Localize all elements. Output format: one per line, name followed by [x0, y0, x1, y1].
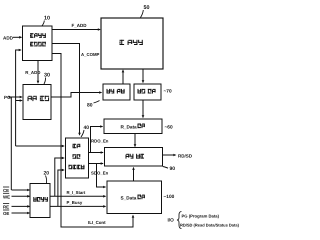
- svg-text:PG: PG: [4, 95, 11, 100]
- wire A_COMP: [52, 44, 81, 136]
- label RDO_En: [91, 139, 109, 144]
- svg-text:P_Busy: P_Busy: [67, 200, 83, 205]
- wire ADD: [13, 36, 22, 39]
- svg-text:ADD: ADD: [3, 36, 14, 41]
- label RD/SD: [178, 153, 193, 158]
- block U80 write control: [103, 84, 130, 100]
- label F_ADD: [72, 23, 88, 28]
- svg-text:F_ADD: F_ADD: [72, 23, 88, 28]
- wire to U40 in3: [58, 169, 65, 207]
- block U20 control buffer: [30, 184, 50, 218]
- wire R_ADD: [37, 61, 40, 84]
- svg-text:~100: ~100: [164, 194, 175, 200]
- wire ILI_Cont run: [52, 54, 134, 228]
- label I/O: [168, 218, 175, 223]
- wire PG: [9, 96, 23, 99]
- inputs CE WE RE OE: [3, 187, 30, 216]
- label 20: [44, 171, 50, 184]
- legend brace: [177, 212, 182, 229]
- svg-text:I/O: I/O: [168, 218, 175, 223]
- U100 text S_Data: [121, 195, 145, 201]
- svg-text:CE: CE: [3, 188, 9, 193]
- wire RD/SD out: [163, 154, 177, 157]
- wire read to R_Data latch: [142, 100, 145, 118]
- svg-text:RDO_En: RDO_En: [91, 139, 109, 144]
- U10 text line1 (address): [30, 33, 46, 38]
- svg-text:~70: ~70: [164, 89, 172, 95]
- svg-text:50: 50: [144, 5, 150, 11]
- block U40 output buffer control: [66, 138, 89, 178]
- wire rlatch to obuf: [134, 134, 137, 148]
- label 80: [87, 101, 100, 109]
- block U70 read control: [134, 84, 161, 100]
- label R_I_Start: [67, 190, 86, 195]
- svg-text:R_I_Start: R_I_Start: [67, 190, 86, 195]
- U70 text (read control): [138, 89, 156, 94]
- U40 text line2: [73, 154, 81, 158]
- wire write to cell array: [122, 69, 125, 84]
- wire slatch to obuf: [132, 167, 135, 181]
- wire to U40 in1: [16, 145, 65, 148]
- label 90: [163, 166, 175, 172]
- svg-text:OE: OE: [3, 211, 9, 216]
- wire ctrl branch up: [10, 97, 12, 190]
- svg-text:20: 20: [44, 171, 50, 177]
- svg-text:30: 30: [44, 73, 50, 79]
- svg-text:SDO_En: SDO_En: [91, 171, 109, 176]
- svg-text:S_Data: S_Data: [121, 195, 137, 200]
- input PG label: [4, 95, 11, 100]
- wire match to write: [51, 91, 102, 97]
- svg-text:~60: ~60: [165, 125, 173, 131]
- wire SDO_En: [89, 162, 107, 188]
- label PG legend: [182, 214, 220, 219]
- label ILI_Cont: [88, 220, 106, 225]
- wire U30 second input: [16, 99, 23, 102]
- input ADD label: [3, 36, 14, 41]
- U80 text (write control): [107, 89, 125, 94]
- U50 text (cell array): [120, 40, 143, 45]
- label 40: [81, 125, 89, 137]
- block U50 cell array: [101, 18, 163, 69]
- U40 text line1: [73, 144, 81, 148]
- label P_Busy: [67, 200, 83, 205]
- U20 text (control buffer): [33, 197, 48, 202]
- wire to U40 in2: [55, 157, 65, 197]
- block U30 match control: [23, 85, 51, 120]
- label 50: [141, 5, 150, 18]
- U40 text line3: [69, 165, 85, 169]
- label A_COMP: [81, 52, 100, 57]
- svg-text:90: 90: [170, 166, 176, 172]
- svg-text:ILI_Cont: ILI_Cont: [88, 220, 106, 225]
- svg-text:RD/SD (Read Data/Status Data): RD/SD (Read Data/Status Data): [180, 223, 240, 228]
- label 70: [164, 89, 172, 95]
- label RDSD legend: [180, 223, 240, 228]
- svg-text:WE: WE: [3, 194, 10, 199]
- label 100: [164, 194, 175, 200]
- block U100 S_Data latch: [107, 181, 162, 214]
- svg-text:RD/SD: RD/SD: [178, 153, 193, 158]
- svg-text:A_COMP: A_COMP: [81, 52, 100, 57]
- svg-text:R_Data: R_Data: [121, 124, 138, 129]
- label 60: [165, 125, 173, 131]
- label R_ADD: [25, 70, 40, 75]
- wire P_Busy: [50, 205, 106, 208]
- label 30: [44, 73, 50, 85]
- wire cell array to read: [142, 69, 145, 83]
- U60 text R_Data: [121, 124, 145, 130]
- svg-text:PG (Program Data): PG (Program Data): [182, 214, 220, 219]
- label SDO_En: [91, 171, 109, 176]
- block U90 output buffer: [105, 148, 163, 167]
- wire R_I_Start: [50, 195, 106, 198]
- label 10: [42, 16, 50, 26]
- svg-text:80: 80: [87, 103, 93, 109]
- U10 text line2 (input buffer): [30, 42, 46, 47]
- svg-text:R_ADD: R_ADD: [25, 70, 40, 75]
- block U10 address input buffer: [23, 26, 53, 61]
- U90 text (output buffer): [126, 154, 145, 159]
- svg-text:10: 10: [44, 16, 50, 22]
- wire RDO_En: [89, 125, 104, 154]
- block U60 R_Data latch: [104, 119, 162, 134]
- svg-text:RE: RE: [3, 204, 9, 209]
- wire F_ADD: [52, 28, 101, 31]
- wire feedback to U10: [16, 49, 22, 146]
- U30 text (match control): [28, 96, 50, 101]
